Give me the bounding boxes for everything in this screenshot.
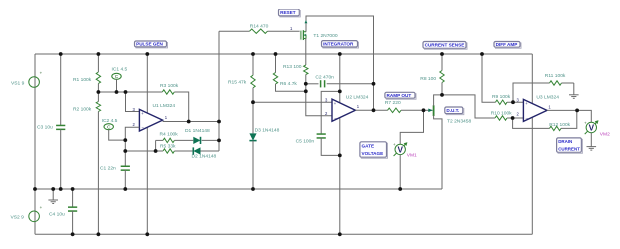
wire IC1 lead xyxy=(116,79,118,92)
wire R10 to pin2 xyxy=(507,117,523,119)
wire U1 pin3 input xyxy=(126,92,140,112)
resistor R14 xyxy=(250,24,269,34)
current source IC1 xyxy=(112,66,128,80)
wire U2 V- pin xyxy=(339,117,341,234)
svg-text:CURRENT: CURRENT xyxy=(558,146,580,151)
label box RESET xyxy=(279,9,301,17)
wire R15 bottom xyxy=(252,88,254,134)
wire C4 top lead xyxy=(72,189,74,207)
voltage source VS1 xyxy=(11,71,43,88)
svg-text:T2 2N3458: T2 2N3458 xyxy=(447,119,471,125)
wire C3 bottom lead xyxy=(60,129,62,189)
resistor R4 xyxy=(160,132,179,143)
wire D1 to column xyxy=(202,139,219,141)
label box DUT xyxy=(445,107,464,115)
svg-text:DIFF AMP: DIFF AMP xyxy=(496,42,518,47)
wire ground rail xyxy=(35,188,442,190)
wire U1 V+ pin xyxy=(146,54,148,113)
svg-text:VM2: VM2 xyxy=(600,131,610,137)
svg-text:D2 1N4148: D2 1N4148 xyxy=(192,154,217,160)
wire D2 to column xyxy=(201,150,220,152)
capacitor C2 xyxy=(315,75,334,88)
svg-text:+: + xyxy=(40,71,43,76)
wire +9V top rail xyxy=(35,53,532,55)
label box DRAIN CURRENT xyxy=(557,138,583,153)
voltmeter VM1 xyxy=(393,142,417,158)
capacitor C1 xyxy=(100,165,130,171)
label box INTEGRATOR xyxy=(322,41,359,48)
wire R11 riser xyxy=(513,83,550,102)
resistor R7 xyxy=(385,100,401,113)
wire U1 pin2 input xyxy=(125,127,139,151)
svg-text:V: V xyxy=(589,123,595,132)
wire U3 V- pin xyxy=(531,118,533,235)
svg-text:U1 LM324: U1 LM324 xyxy=(153,103,176,109)
wire U3 V+ pin xyxy=(531,54,533,104)
svg-text:PULSE GEN: PULSE GEN xyxy=(136,42,163,47)
capacitor C3 xyxy=(37,124,65,130)
resistor R5 xyxy=(160,143,176,153)
svg-text:R4 100k: R4 100k xyxy=(160,132,179,138)
wire R1 bottom lead xyxy=(97,84,99,93)
svg-text:C4 10u: C4 10u xyxy=(49,212,65,218)
svg-text:C5 100n: C5 100n xyxy=(296,138,315,144)
label box CURRENT SENSE xyxy=(423,42,467,50)
current source IC2 xyxy=(102,118,118,131)
diode D1 xyxy=(185,128,210,144)
svg-text:V: V xyxy=(397,145,403,154)
wire R6 bottom xyxy=(276,84,306,91)
resistor R6 xyxy=(273,73,297,88)
wire VS1 top lead xyxy=(34,54,36,189)
wire R8 top lead xyxy=(441,54,443,71)
ground xyxy=(48,189,58,204)
op-amp U2 xyxy=(325,94,369,121)
wire VM1 ground lead xyxy=(399,155,401,189)
wire C5 top xyxy=(321,91,340,134)
svg-text:VS2 9: VS2 9 xyxy=(11,215,25,221)
svg-text:C: C xyxy=(107,125,111,131)
svg-text:R7 220: R7 220 xyxy=(385,100,401,106)
wire T1 drain xyxy=(305,16,374,110)
label box PULSE GEN xyxy=(135,41,168,48)
voltage source VS2 xyxy=(11,205,43,222)
svg-text:D1 1N4148: D1 1N4148 xyxy=(185,128,210,134)
resistor R11 xyxy=(545,73,566,85)
wire C5 bottom xyxy=(321,138,340,156)
svg-text:R9 100k: R9 100k xyxy=(492,94,511,100)
wire U1 output xyxy=(163,121,219,123)
svg-text:R8 100: R8 100 xyxy=(420,76,436,82)
wire C4 bottom lead xyxy=(72,211,74,234)
wire R13 bottom column xyxy=(306,75,332,116)
wire -9V bottom rail xyxy=(35,233,532,235)
svg-text:DRAIN: DRAIN xyxy=(558,139,572,144)
label box RAMP OUT xyxy=(385,92,416,99)
wire T2 drain xyxy=(434,95,442,106)
voltmeter VM2 xyxy=(584,120,610,137)
svg-text:D3 1N4148: D3 1N4148 xyxy=(255,128,280,134)
label box GATE VOLTAGE xyxy=(360,142,388,158)
svg-text:IC1 4.5: IC1 4.5 xyxy=(112,66,128,72)
svg-text:VOLTAGE: VOLTAGE xyxy=(362,151,384,156)
svg-text:R15 47k: R15 47k xyxy=(228,80,247,86)
resistor R8 xyxy=(420,71,444,83)
resistor R2 xyxy=(73,102,101,113)
resistor R3 xyxy=(160,83,179,94)
wire VM2 ground lead xyxy=(590,133,592,147)
svg-text:R5 33k: R5 33k xyxy=(160,143,176,149)
wire reset column xyxy=(218,31,220,151)
label box DIFF AMP xyxy=(494,42,521,49)
transistor T1 xyxy=(300,30,338,40)
svg-text:CURRENT SENSE: CURRENT SENSE xyxy=(425,43,465,48)
ground VM2 xyxy=(587,147,597,151)
wire R4 lead xyxy=(156,139,163,141)
wire R5 to D2 xyxy=(174,150,193,152)
svg-text:+: + xyxy=(584,120,587,125)
transistor T2 xyxy=(424,105,472,124)
wire VS2 top lead xyxy=(34,189,36,234)
wire D3 bottom lead xyxy=(252,141,254,189)
wire R11 lead xyxy=(562,82,574,84)
wire U2 pin3 line xyxy=(253,101,332,103)
svg-text:RESET: RESET xyxy=(280,10,296,15)
wire IC2 lead xyxy=(109,130,126,140)
wire U3 output xyxy=(547,110,591,122)
wire U2 output xyxy=(355,109,387,111)
svg-text:D.U.T.: D.U.T. xyxy=(446,108,459,113)
svg-text:R12 100k: R12 100k xyxy=(549,122,570,128)
diode D2 xyxy=(192,147,217,159)
svg-text:C: C xyxy=(115,74,119,80)
wire R3 to output xyxy=(174,92,188,122)
svg-text:VM1: VM1 xyxy=(407,152,417,158)
op-amp U1 xyxy=(132,103,175,131)
svg-text:T1 2N7000: T1 2N7000 xyxy=(313,33,337,39)
wire R2 leads xyxy=(97,92,99,234)
op-amp U3 xyxy=(516,95,559,122)
svg-text:R10 100k: R10 100k xyxy=(491,110,512,116)
svg-text:INTEGRATOR: INTEGRATOR xyxy=(323,41,354,46)
ground R11 xyxy=(569,83,579,98)
wire R4 to D1 xyxy=(174,139,193,141)
wire T2 source xyxy=(434,115,442,189)
wire U1 V- pin xyxy=(146,127,148,234)
wire R6 top lead xyxy=(275,54,277,73)
svg-text:C1 22n: C1 22n xyxy=(100,165,116,171)
resistor R12 loop xyxy=(513,110,577,130)
wire C2 right lead xyxy=(327,83,374,85)
wire R7 to gate xyxy=(401,109,424,111)
wire R4 left vertical xyxy=(155,140,157,151)
wire T1 source lead xyxy=(305,39,307,66)
wire R15 top lead xyxy=(252,54,254,75)
capacitor C4 xyxy=(49,207,77,218)
svg-text:GATE: GATE xyxy=(362,143,375,148)
wire R14 to T1 gate xyxy=(268,30,301,32)
wire R9 to pin3 xyxy=(507,101,523,103)
svg-text:IC2 4.5: IC2 4.5 xyxy=(102,118,118,124)
svg-text:U3 LM324: U3 LM324 xyxy=(536,95,559,101)
wire U2 V+ pin xyxy=(339,54,341,103)
svg-text:R11 100k: R11 100k xyxy=(545,73,566,79)
resistor R13 xyxy=(283,64,308,75)
svg-text:R13 100: R13 100 xyxy=(283,64,302,70)
svg-text:R14 470: R14 470 xyxy=(250,24,269,30)
wire R9 feed xyxy=(482,54,496,102)
svg-text:VS1 9: VS1 9 xyxy=(11,80,25,86)
svg-text:U2 LM324: U2 LM324 xyxy=(346,94,369,100)
resistor R9 xyxy=(492,94,511,105)
svg-text:C3 10u: C3 10u xyxy=(37,124,53,130)
wire node divider line xyxy=(98,91,162,93)
svg-text:R2 100k: R2 100k xyxy=(73,106,92,112)
wire R5 line xyxy=(125,150,163,152)
wire C1 top lead xyxy=(124,151,126,166)
wire C2 left lead xyxy=(306,83,319,85)
diode D3 xyxy=(249,128,279,141)
wire sense line xyxy=(442,95,495,118)
resistor R1 xyxy=(73,72,101,84)
capacitor C5 xyxy=(296,134,326,144)
svg-text:R3 100k: R3 100k xyxy=(160,83,179,89)
wire R8 bottom lead xyxy=(441,83,443,95)
svg-text:R6 4.7k: R6 4.7k xyxy=(280,81,297,87)
resistor R10 xyxy=(491,110,512,120)
svg-text:+: + xyxy=(40,205,43,210)
wire C3 top lead xyxy=(60,54,62,126)
pin label 1 T1 xyxy=(290,26,293,31)
wire R14 lead left xyxy=(219,30,250,32)
svg-text:RAMP OUT: RAMP OUT xyxy=(387,93,412,98)
svg-text:C2 470n: C2 470n xyxy=(315,75,334,81)
wire C1 bottom lead xyxy=(124,170,126,189)
resistor R15 xyxy=(228,75,255,88)
svg-text:+: + xyxy=(393,142,396,147)
svg-text:R1 100k: R1 100k xyxy=(73,77,92,83)
wire R1 top lead xyxy=(97,54,99,72)
wire VM1 tap xyxy=(400,110,423,144)
